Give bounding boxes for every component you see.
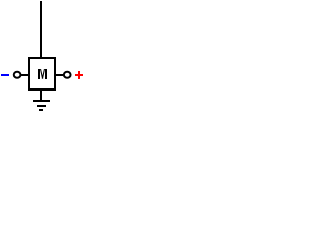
wire (left terminal to motor) bbox=[21, 74, 29, 76]
wire (motor to right terminal) bbox=[56, 74, 63, 76]
label + (positive polarity) bbox=[75, 71, 83, 79]
node negative terminal bbox=[14, 72, 21, 78]
motor M1 (box outline) bbox=[28, 57, 56, 91]
ground bbox=[33, 91, 50, 111]
node positive terminal bbox=[64, 72, 71, 78]
label M (motor) bbox=[38, 69, 47, 79]
label - (negative polarity) bbox=[1, 74, 9, 76]
wire (top supply wire into motor) bbox=[40, 1, 42, 57]
